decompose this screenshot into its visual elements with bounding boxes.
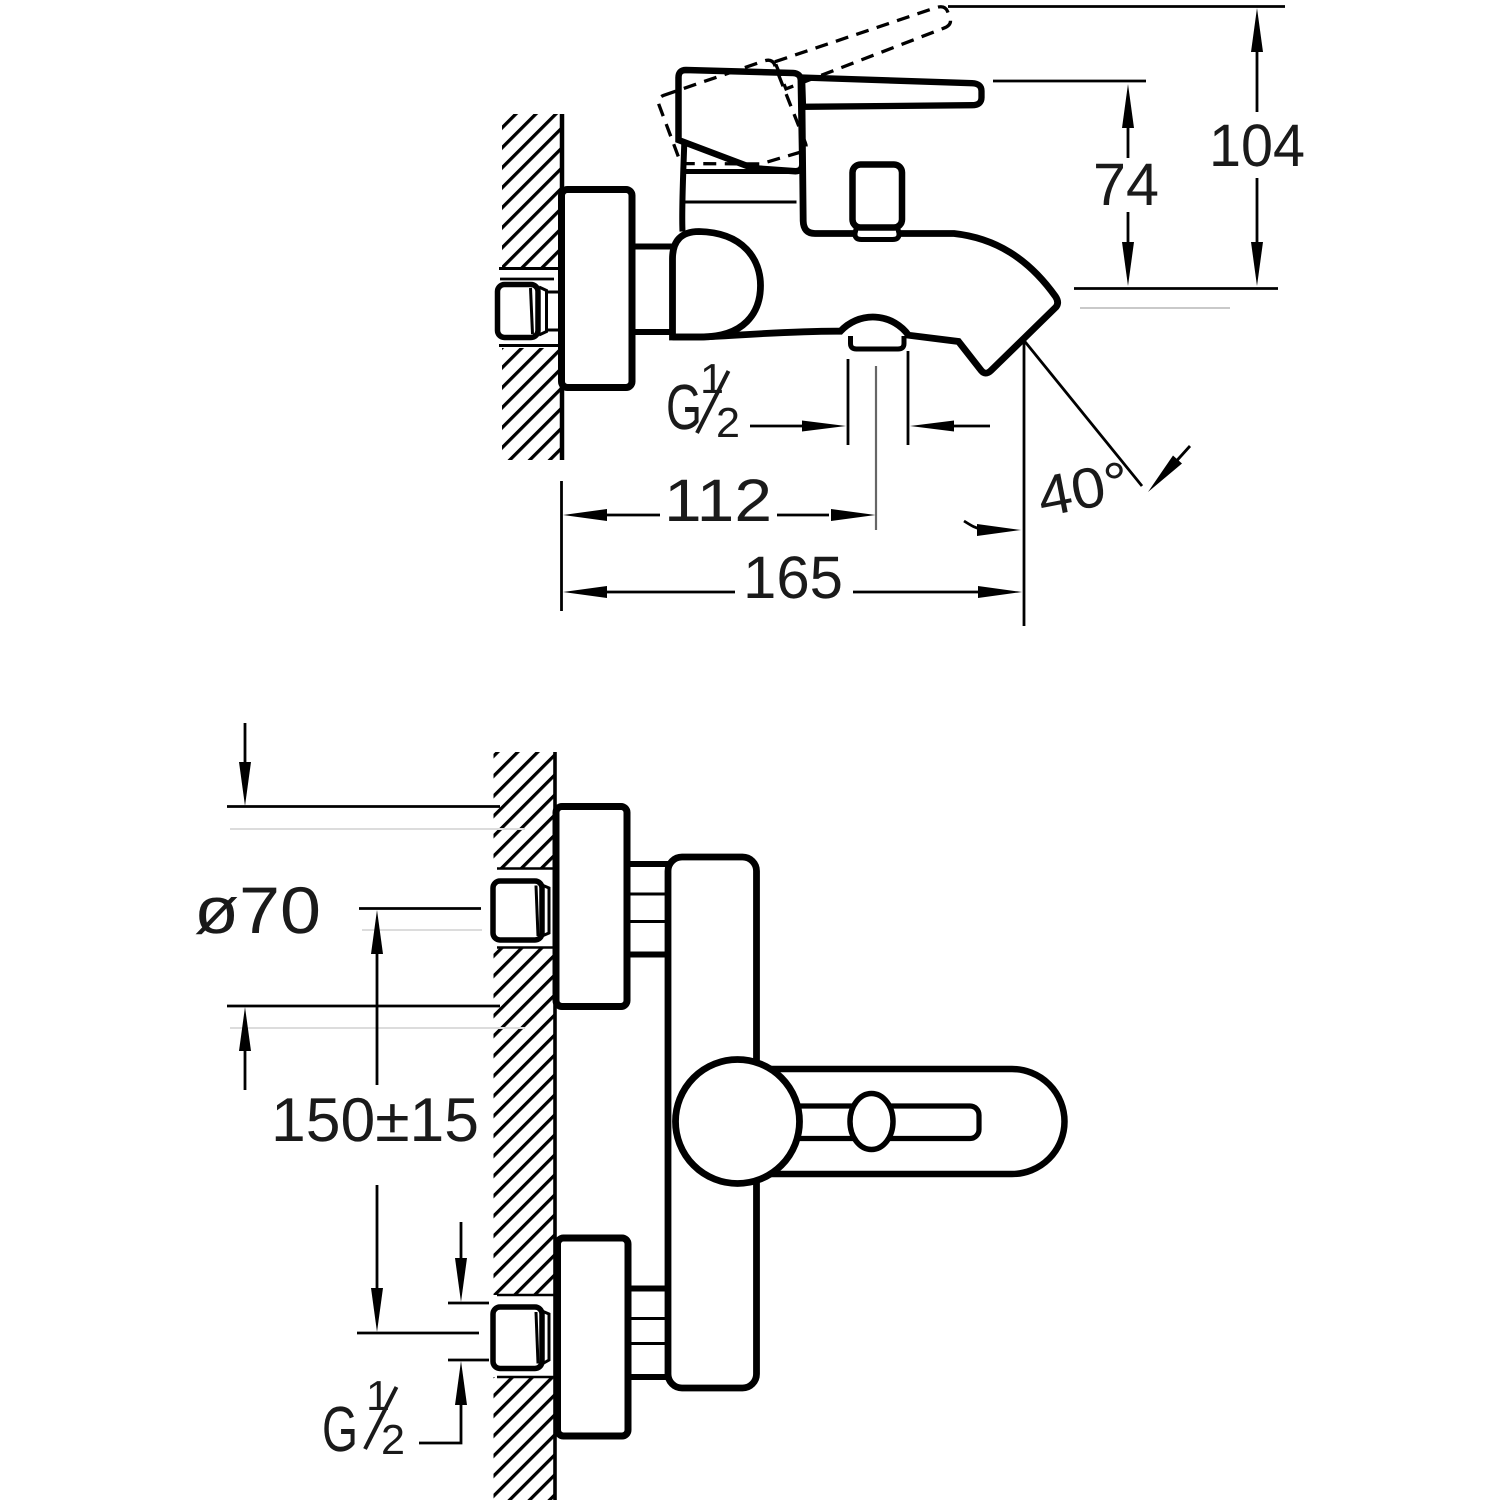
74/104 bottom extension line [1074,287,1278,290]
diverter collar [855,227,899,240]
cartridge dome (body end cap) [673,232,761,338]
G 1/2 ticks [448,1303,489,1360]
wall hatching upper part [502,114,562,268]
wall hatching segment 2 [494,948,555,1296]
escutcheon (side view) [562,190,633,388]
dashed handle in raised position [656,0,975,193]
lever underside slot [788,1106,979,1139]
40 degree slanted line [1022,338,1142,486]
74 top extension line [993,80,1146,83]
wall hole ledge lines [499,269,560,346]
wall hatching segment 3 [494,1377,555,1500]
svg-text:2: 2 [716,399,740,446]
handle lever (end view) [770,1069,1065,1174]
dimension 165 [607,591,978,594]
wall hole ledges lower [497,1295,555,1377]
dimension 112 [607,514,829,517]
handle base cap [679,70,803,171]
svg-text:2: 2 [381,1416,405,1463]
svg-text:G: G [322,1393,358,1465]
escutcheon top extension line [227,805,500,808]
escutcheon bottom extension line [227,1005,500,1008]
svg-text:1: 1 [700,355,724,402]
svg-text:165: 165 [743,544,843,611]
wall surface line [560,114,565,460]
mixer body (left view) [668,857,757,1388]
svg-text:104: 104 [1209,112,1305,179]
40 degree arrow upper right [1162,446,1190,477]
svg-text:150±15: 150±15 [271,1086,479,1155]
40 degree arrow lower left [964,521,981,529]
connecting pipe escutcheon to body [632,247,673,333]
lower union nut [493,1307,542,1369]
wall extension line (for 112/165) [560,481,563,611]
wall hole ledges upper [497,869,555,948]
nut chamfer line [531,288,533,334]
handle set screw [850,1094,893,1150]
dimension 104 [1256,52,1259,242]
lower escutcheon [558,1238,629,1436]
dia 70 upper arrow [244,723,247,762]
svg-text:74: 74 [1093,151,1159,218]
dimension 74 [1127,126,1130,242]
nut taper face to wall [539,287,560,335]
shower hose nipple under spout [851,336,905,349]
G 1/2 arrows [750,425,804,428]
upper escutcheon [556,807,627,1007]
cartridge dome circle [676,1060,800,1184]
upper union nut [493,881,542,940]
wall hatching lower part [502,348,562,460]
body neck left edge [682,143,684,232]
G 1/2 extension lines [848,351,908,445]
faint ghost line [1080,307,1230,309]
lower connector [629,1289,668,1378]
faint scan ghost lines [230,829,525,1028]
body top face line [684,169,795,174]
handle lever [802,78,982,107]
150 upper reference line [359,907,481,910]
body and spout outline [673,106,1058,373]
150 dimension line [376,954,379,1288]
union nut behind wall [498,285,539,338]
104 top extension line [948,5,1285,8]
wall surface line [553,752,557,1500]
G 1/2 upper arrow [460,1222,463,1258]
dashed handle base cap (raised) [656,55,807,193]
wall hatching segment 1 [494,752,555,869]
spout centerline [875,366,877,530]
svg-text:ø70: ø70 [194,873,321,947]
G 1/2 lower arrow with leader [455,1361,467,1405]
body joint thin line [683,201,797,204]
dia 70 lower arrow [239,1007,251,1051]
150 lower reference line [357,1332,479,1335]
supply pipe line behind wall [500,278,554,281]
svg-text:1: 1 [366,1372,390,1419]
svg-text:112: 112 [664,467,772,534]
dashed lever (raised) [775,0,953,89]
upper connector [629,864,668,955]
40 degree reference vertical line [1023,342,1026,626]
diverter knob [853,165,903,228]
